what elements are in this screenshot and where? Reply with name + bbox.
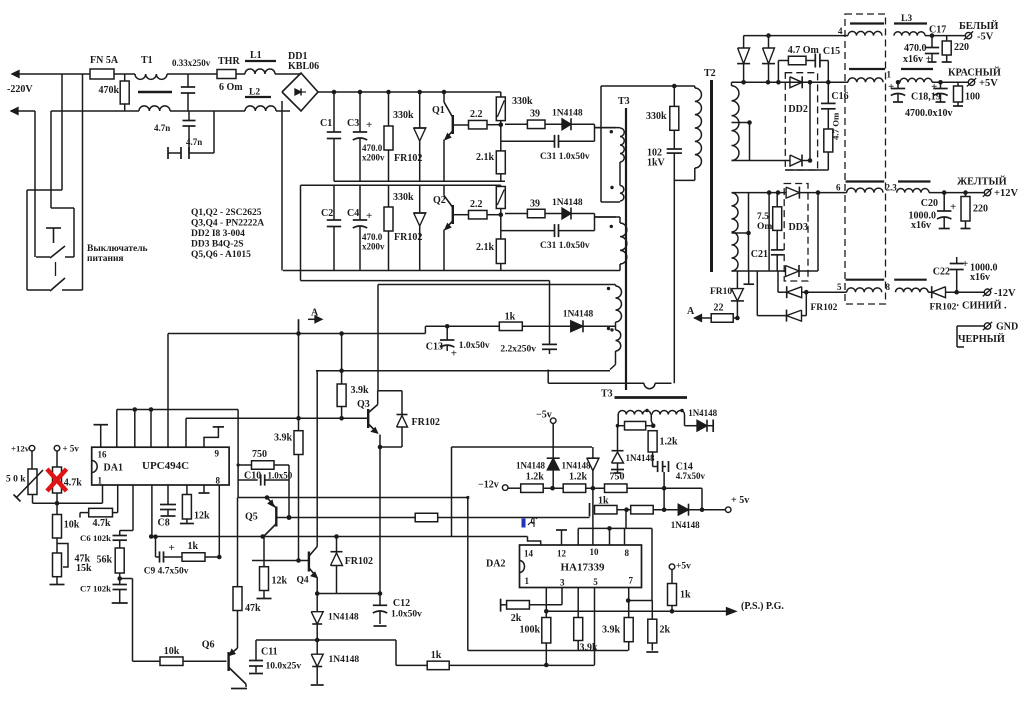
wire Q6 emitter ground [245,684,247,687]
wire return rail [300,185,302,280]
svg-text:DA1: DA1 [104,463,123,474]
wire [82,74,84,290]
wire half-bridge mid rail [301,184,501,186]
diode DD3 lower [786,266,800,277]
svg-text:100k: 100k [519,625,540,636]
svg-text:C4: C4 [347,208,359,219]
svg-text:T3: T3 [618,96,630,107]
svg-text:3.9k: 3.9k [274,433,293,444]
svg-text:220: 220 [954,42,969,53]
wire DA2 top bus [578,527,652,529]
transformer T2 secondary upper winding [732,86,739,161]
capacitor C13 1.0x50v [445,324,450,329]
svg-text:-220V: -220V [7,84,33,95]
wire [50,111,52,208]
svg-text:DD3: DD3 [789,222,808,233]
svg-text:FR102: FR102 [412,417,440,428]
wire PG sense [256,639,396,641]
svg-text:1k: 1k [680,590,691,601]
svg-text:470k: 470k [98,85,119,96]
IC DA2 HA17339 [520,545,642,588]
wire DA2 pin14 step [528,537,541,546]
svg-text:1N4148: 1N4148 [562,461,591,471]
svg-text:DA2: DA2 [486,559,505,570]
wire bus2 corner [185,418,187,447]
wire aux corner [701,488,703,510]
svg-text:T1: T1 [141,55,153,66]
resistor 1k PG pullup [671,570,673,584]
svg-text:5: 5 [837,282,842,292]
svg-text:7: 7 [629,576,634,586]
wire -5v branch [508,487,521,489]
svg-text:C3: C3 [347,118,359,129]
svg-text:1N4148: 1N4148 [552,109,583,119]
svg-text:(P.S.) P.G.: (P.S.) P.G. [741,601,784,612]
wire pin4 drop [151,485,153,537]
svg-text:FR102: FR102 [345,556,373,567]
svg-text:1.2k: 1.2k [660,437,679,448]
svg-text:470.0: 470.0 [362,232,383,242]
resistor 4.7 Om vertical [827,109,829,129]
svg-text:3.9k: 3.9k [602,625,621,636]
wire pin5 drop [594,588,596,666]
svg-text:2.1k: 2.1k [476,152,495,163]
svg-text:1.0x50v: 1.0x50v [391,610,422,620]
svg-text:+: + [962,258,968,270]
svg-text:C11: C11 [261,647,278,658]
node -220V line input phase arrow [12,73,62,75]
svg-text:6: 6 [836,183,841,193]
resistor 470k input bleeder [120,81,129,104]
svg-text:C7 102k: C7 102k [80,584,111,594]
svg-text:1N4148: 1N4148 [688,408,717,418]
svg-text:470.0: 470.0 [362,143,383,153]
svg-text:C13: C13 [426,342,443,353]
svg-text:+: + [366,119,372,131]
wire drive node upper [594,124,596,141]
transformer T2 core [710,80,713,272]
svg-text:C12: C12 [393,598,410,609]
svg-text:5: 5 [593,577,598,587]
svg-text:1N4148: 1N4148 [329,655,360,665]
blue ink mark [522,519,526,528]
wire loop lower [547,370,549,384]
svg-text:−5v: −5v [536,410,552,421]
svg-text:T2: T2 [704,68,716,79]
svg-text:+: + [950,201,956,213]
wire bus above IC [117,409,238,411]
svg-text:4: 4 [838,26,843,36]
transformer T2 secondary lower winding [732,193,739,271]
svg-text:T3: T3 [601,389,613,400]
svg-text:10.0x25v: 10.0x25v [266,662,302,672]
output choke +5V second [901,68,933,70]
wire to 1k output [255,639,257,641]
wire pin10 drop [592,488,594,545]
svg-text:0.33x250v: 0.33x250v [172,58,211,68]
svg-text:+5v: +5v [676,562,691,572]
svg-text:C9 4.7x50v: C9 4.7x50v [144,567,189,577]
svg-text:FR102: FR102 [394,232,422,243]
resistor 330k startup lower (slashed) [500,185,502,186]
svg-text:C20: C20 [921,198,938,209]
svg-text:1N4148: 1N4148 [671,520,700,530]
switch S1 power switch contact 1 [36,256,50,258]
wire aux vertical [600,86,602,202]
wire lower winding center tap [732,232,749,234]
svg-text:Q1,Q2 - 2SC2625: Q1,Q2 - 2SC2625 [191,208,262,218]
wire Q3 collector [377,285,379,391]
transformer T3 aux core bar [615,396,688,399]
svg-text:+12v: +12v [11,444,30,454]
svg-text:22: 22 [714,303,724,314]
wire PG output arrow [546,610,727,612]
wire cap-bank mid rail [334,180,505,182]
svg-text:+: + [451,348,457,360]
svg-text:1: 1 [525,576,530,586]
wire [120,578,133,580]
svg-text:1.2k: 1.2k [526,472,545,483]
svg-text:FN 5A: FN 5A [90,55,119,66]
diode FR102 upper clamp [419,92,421,128]
svg-text:1N4148: 1N4148 [563,310,594,320]
diode FR102 lower clamp [419,185,421,213]
svg-text:C21: C21 [751,249,768,260]
svg-text:Om: Om [757,222,772,232]
svg-text:+: + [888,81,894,93]
svg-text:L1: L1 [250,50,262,61]
wire [768,193,770,271]
svg-text:4.7k: 4.7k [64,478,82,489]
wire [51,110,139,112]
dual diode DD3 package [784,184,808,282]
svg-text:питания: питания [87,254,124,264]
svg-text:C22: C22 [933,267,950,278]
svg-text:ЧЕРНЫЙ: ЧЕРНЫЙ [958,333,1005,345]
svg-text:1N4148: 1N4148 [626,453,655,463]
wire reference node [33,502,103,504]
wire DD3 output tie [817,193,819,271]
svg-text:Q3: Q3 [357,399,370,410]
svg-text:1.2k: 1.2k [569,472,588,483]
svg-text:47k: 47k [245,603,261,614]
svg-text:1kV: 1kV [647,158,666,169]
wire RC to Q5 base [274,464,289,466]
svg-text:4.7n: 4.7n [154,123,170,133]
wire DA2 right drop [651,528,653,600]
svg-text:x16v: x16v [970,272,990,283]
wire [27,189,62,191]
svg-text:−12v: −12v [478,480,499,491]
svg-text:C31 1.0x50v: C31 1.0x50v [540,152,590,162]
wire aux winding right diode [684,415,686,426]
svg-text:ЖЕЛТЫЙ: ЖЕЛТЫЙ [957,176,1007,188]
diode DD3 upper [786,187,799,198]
red X mark [47,469,67,491]
svg-text:2.1k: 2.1k [476,242,495,253]
svg-text:12k: 12k [272,576,288,587]
resistor 3.9k pin3 [574,618,583,641]
svg-text:56k: 56k [96,555,112,566]
output choke -12V second [894,279,927,281]
svg-text:Q5: Q5 [245,512,258,523]
diode FR102 -12V lower [787,310,802,321]
resistor 10k [53,515,62,539]
wire Q3 feed rail [378,284,616,286]
svg-text:-12V: -12V [994,288,1016,299]
wire Q3 emitter [378,445,383,450]
divider tap bracket [57,544,68,568]
svg-text:3.9k: 3.9k [351,385,370,396]
svg-text:C17: C17 [929,25,946,36]
wire Q4 emitter [316,578,318,594]
svg-text:470.0: 470.0 [904,43,927,54]
wire 2.2x250v cap branch [549,281,551,345]
wire Q3 base drive bus [186,417,368,419]
svg-text:GND: GND [996,322,1018,333]
svg-text:x16v +: x16v + [903,54,932,65]
diode -5V rectifier a [743,36,745,48]
svg-text:C8: C8 [158,518,170,529]
svg-text:FR10: FR10 [710,287,732,297]
svg-text:БЕЛЫЙ: БЕЛЫЙ [959,20,998,32]
node -220V neutral arrow [11,110,35,112]
wire -5V rectifier top [744,35,848,37]
wire upper winding bottom [732,160,791,162]
svg-text:C18,19: C18,19 [911,92,941,103]
svg-text:39: 39 [530,109,540,120]
wire Q4 collector from T3 return [316,371,318,543]
svg-text:Q5,Q6 - A1015: Q5,Q6 - A1015 [191,250,251,260]
resistor 4.7k (crossed out) [53,467,62,493]
wire lower winding bottom [732,270,787,272]
svg-text:HA17339: HA17339 [561,562,606,574]
svg-text:14: 14 [524,549,534,559]
svg-text:· СИНИЙ .: · СИНИЙ . [956,300,1007,312]
svg-text:4.7x50v: 4.7x50v [676,471,706,481]
output choke dashed box [845,14,886,304]
svg-text:4.7n: 4.7n [186,137,202,147]
wire snubber return [673,153,675,383]
svg-text:UPC494C: UPC494C [142,460,189,472]
wire lower bus a [468,650,628,652]
svg-text:2.2: 2.2 [470,109,483,120]
wire [34,111,36,257]
svg-text:4700.0x10v: 4700.0x10v [905,108,953,119]
resistor 2k pin3 [561,588,563,605]
wire C14 drop [663,472,665,510]
wire feedback from IC [168,333,425,335]
transformer T3 primary winding [595,127,621,129]
svg-text:2k: 2k [511,613,522,624]
svg-text:C1: C1 [320,118,332,129]
wire DD2 output tie [809,82,811,160]
wire error amp node [238,497,469,499]
svg-text:DD2 I8 3-004: DD2 I8 3-004 [191,229,245,239]
svg-text:1: 1 [98,476,103,486]
ground pin 12 flag [561,530,563,545]
terminal +5v PG pullup [669,564,675,570]
svg-text:КРАСНЫЙ: КРАСНЫЙ [948,67,1001,79]
svg-text:x16v: x16v [911,220,931,231]
power flag pin 9 [204,427,218,447]
wire main positive rail [318,91,501,93]
svg-text:-5V: -5V [977,32,994,43]
svg-text:220: 220 [973,204,988,215]
svg-text:3: 3 [560,578,565,588]
svg-text:2.2x250v: 2.2x250v [500,345,536,355]
svg-text:8: 8 [886,282,891,292]
svg-text:C16: C16 [831,91,848,102]
wire pin8 drop DA2 [625,510,627,529]
svg-text:330k: 330k [512,96,533,107]
resistor 220 +12V load [965,193,967,197]
resistor 100 +5V load [957,82,959,86]
wire feedback step [424,326,426,333]
svg-text:8: 8 [216,476,221,486]
svg-text:4.7 Om: 4.7 Om [831,112,841,140]
svg-text:100: 100 [965,92,980,103]
diode -5V rectifier b [768,36,770,48]
svg-text:1N4148: 1N4148 [552,198,583,208]
wire lower bus b [396,664,595,666]
svg-text:+ 5v: + 5v [63,444,80,454]
svg-text:3.9k: 3.9k [580,643,599,654]
wire +12V rectifier node [732,192,787,194]
svg-text:DD2: DD2 [788,104,807,115]
svg-text:1k: 1k [505,312,516,323]
svg-text:330k: 330k [393,110,414,121]
svg-text:15k: 15k [76,563,92,574]
wire +5V rectifier node [731,82,733,86]
svg-text:x200v: x200v [362,153,385,163]
svg-text:+ 5v: + 5v [731,495,749,506]
wire aux winding left [617,415,619,426]
svg-text:5 0 k: 5 0 k [6,475,26,485]
wire [777,271,779,292]
svg-text:C15: C15 [823,46,840,57]
svg-text:C2: C2 [321,208,333,219]
wire stub with bar [748,271,750,284]
svg-text:+5V: +5V [979,78,998,89]
pin 3 squiggle [528,518,537,526]
svg-text:A: A [687,306,695,317]
diode DD2 lower [790,155,802,166]
svg-text:FR102: FR102 [811,303,838,313]
svg-text:KBL06: KBL06 [288,61,319,72]
svg-text:Выключатель: Выключатель [87,244,148,254]
resistor 12k Q5 collector [263,537,265,567]
svg-text:4.7k: 4.7k [93,518,112,529]
power flag pin 16 [100,425,102,448]
svg-text:1N4148: 1N4148 [516,461,545,471]
wire DTC vertical [298,319,300,430]
wire upper winding center tap [732,122,750,124]
svg-text:12: 12 [557,549,567,559]
svg-text:1k: 1k [431,650,442,661]
capacitor C31 1.0x50v upper [500,125,502,142]
wire [61,74,63,190]
svg-text:16: 16 [98,450,108,460]
svg-text:FR102: FR102 [394,153,422,164]
svg-text:x200v: x200v [362,242,385,252]
svg-text:10k: 10k [64,520,80,531]
capacitor C31 1.0x50v lower [500,215,502,231]
resistor 12k pin6 [186,485,188,495]
svg-text:Q1: Q1 [432,105,445,116]
resistor aux damper [625,421,646,430]
svg-text:2.2: 2.2 [470,199,483,210]
svg-text:8: 8 [625,548,630,558]
dual diode DD2 package [785,73,817,170]
ground pin 7 [203,485,205,493]
wire pin drops to IC top [116,410,118,448]
svg-text:750: 750 [252,449,267,460]
svg-text:330k: 330k [393,192,414,203]
resistor 47k 15k [53,553,62,577]
transformer T3 winding B [620,186,624,202]
svg-text:1N4148: 1N4148 [328,613,359,623]
svg-text:2.3: 2.3 [886,183,898,193]
svg-text:Q4: Q4 [297,576,309,586]
svg-text:+: + [169,542,175,554]
resistor feedback middle [415,513,438,522]
transformer T3 winding C [595,216,621,218]
svg-text:1.0x50v: 1.0x50v [459,341,490,351]
capacitor C8 [167,485,169,505]
output choke L3 +12V second [898,180,931,182]
svg-text:10: 10 [590,547,600,557]
wire pin3 resistor drop [577,588,579,618]
svg-text:6 Om: 6 Om [219,82,243,93]
svg-text:2k: 2k [660,625,671,636]
wire box top [452,446,593,448]
resistor standby second [631,505,654,514]
wire 1k standby left bar [589,503,591,517]
resistor 220 -5V load [946,36,948,41]
svg-text:+12V: +12V [994,188,1018,199]
wire drive node lower [594,214,596,231]
resistor 2k pin8 drop [651,601,653,620]
svg-text:Q6: Q6 [202,640,215,651]
resistor 3.9k pin7 [628,588,630,601]
svg-text:THR: THR [218,56,240,67]
svg-text:7.5: 7.5 [757,212,769,222]
wire long node to DA2 [151,536,527,538]
svg-text:39: 39 [530,199,540,210]
wire DA2 box left [467,498,469,651]
resistor 47k Q6 collector [237,498,239,587]
wire T2 primary top [601,85,695,87]
wire aux center tap [650,415,652,422]
svg-text:C6 102k: C6 102k [80,533,111,543]
wire dead-time corner [451,447,453,537]
transformer T3 aux winding [618,410,651,414]
terminal -12V СИНИЙ [984,289,990,295]
svg-text:12k: 12k [194,511,210,522]
svg-text:1k: 1k [188,541,199,552]
transformer T2 primary winding [694,86,696,88]
wire bridge negative to bottom rail [281,101,283,271]
wire DD2 bottom [785,169,828,171]
wire T3 bottom return [316,370,610,372]
wire to FR10 [736,271,738,289]
svg-text:C31 1.0x50v: C31 1.0x50v [540,241,590,251]
transformer T3 core [625,108,627,390]
svg-text:9: 9 [215,449,220,459]
wire to -12V diode pair [756,271,758,316]
svg-text:DD3 B4Q-2S: DD3 B4Q-2S [191,240,244,250]
